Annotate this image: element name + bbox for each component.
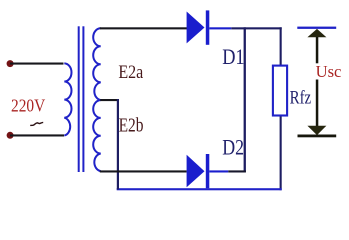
wire D1 cathode to node [209, 27, 231, 29]
transformer core line right [82, 26, 84, 172]
svg-text:Usc: Usc [316, 62, 342, 81]
wire bottom-left [10, 134, 64, 136]
wire corner down to resistor top [280, 27, 282, 65]
svg-text:D2: D2 [222, 135, 244, 160]
terminal dot top [7, 60, 14, 67]
wire D2 node black segment [228, 170, 246, 172]
cathode bus vertical node [244, 27, 246, 172]
transformer primary winding [64, 63, 71, 135]
diode D1 cathode bar [206, 10, 210, 44]
Usc down arrow stem [316, 80, 319, 127]
diode D1 triangle [187, 12, 205, 44]
Usc top bar [297, 27, 336, 29]
svg-text:Rfz: Rfz [290, 88, 312, 109]
Usc up arrow head [307, 29, 326, 37]
transformer core line left [78, 26, 80, 172]
svg-text:D1: D1 [222, 44, 244, 69]
bottom rail [117, 188, 282, 190]
Usc down arrow head [307, 126, 326, 135]
wire secondary bottom to D2 anode [100, 170, 187, 172]
wire node to corner (top) [231, 27, 281, 29]
diode D2 triangle [187, 155, 205, 187]
svg-text:E2a: E2a [118, 62, 143, 83]
transformer secondary winding E2a [93, 28, 101, 100]
resistor Rfz [273, 66, 287, 116]
center tap vertical [117, 99, 119, 190]
svg-text:220V: 220V [11, 96, 45, 116]
wire resistor bottom to rail [280, 117, 282, 191]
Usc bottom bar [298, 135, 337, 138]
diode D2 cathode bar [206, 154, 210, 188]
wire secondary top to D1 anode [100, 27, 187, 29]
wire top-left [10, 63, 64, 65]
svg-text:E2b: E2b [119, 115, 144, 137]
wire D2 cathode to node [209, 170, 228, 172]
Usc up arrow stem [316, 37, 319, 63]
terminal dot bottom [7, 132, 14, 139]
transformer secondary winding E2b [93, 100, 101, 171]
center tap wire horizontal [100, 99, 119, 101]
ac tilde [30, 122, 43, 125]
